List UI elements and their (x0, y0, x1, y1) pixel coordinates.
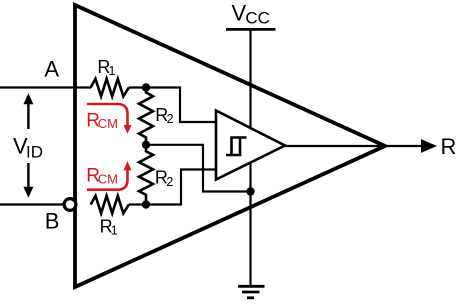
svg-text:CC: CC (245, 8, 270, 27)
svg-text:B: B (45, 208, 60, 233)
svg-text:1: 1 (111, 224, 118, 238)
svg-text:ID: ID (26, 142, 43, 161)
RCM arrow (top, red) (87, 104, 128, 125)
junction dot on bias line (246, 187, 254, 195)
svg-text:V: V (232, 1, 247, 26)
resistor R1 (top) (91, 79, 129, 97)
node A' junction dot (142, 83, 150, 91)
svg-text:CM: CM (98, 172, 118, 187)
inversion bubble on B (64, 199, 76, 211)
wire input A (0, 86, 91, 88)
hysteresis symbol (226, 138, 247, 156)
output arrowhead (421, 139, 437, 153)
resistor R2 (bottom) (139, 145, 153, 205)
svg-text:A: A (44, 56, 59, 81)
wire from R1 to comparator top input (129, 88, 216, 123)
node B' junction dot (142, 200, 150, 208)
resistor R1 (bottom) (91, 196, 129, 214)
wire midpoint to bias line (146, 145, 251, 192)
wire comparator output to R (285, 145, 422, 147)
svg-text:2: 2 (166, 175, 173, 189)
ground (238, 285, 265, 288)
wire input B (0, 203, 63, 205)
VCC power bar (226, 28, 276, 31)
receiver triangle U1 (75, 5, 385, 287)
svg-text:2: 2 (167, 112, 174, 126)
wire VCC to ground vertical (249, 29, 251, 285)
RCM arrow (bottom, red) (87, 170, 128, 190)
comparator U2 (schmitt) (216, 111, 285, 180)
svg-text:R: R (441, 134, 457, 159)
resistor R2 (top) (139, 88, 153, 145)
VID up arrow (27, 104, 29, 129)
wire from R1 to comparator bottom input (129, 170, 216, 205)
svg-text:CM: CM (98, 116, 118, 131)
VID down arrow (27, 163, 29, 187)
svg-text:1: 1 (109, 64, 116, 78)
node R2 midpoint junction dot (142, 141, 150, 149)
